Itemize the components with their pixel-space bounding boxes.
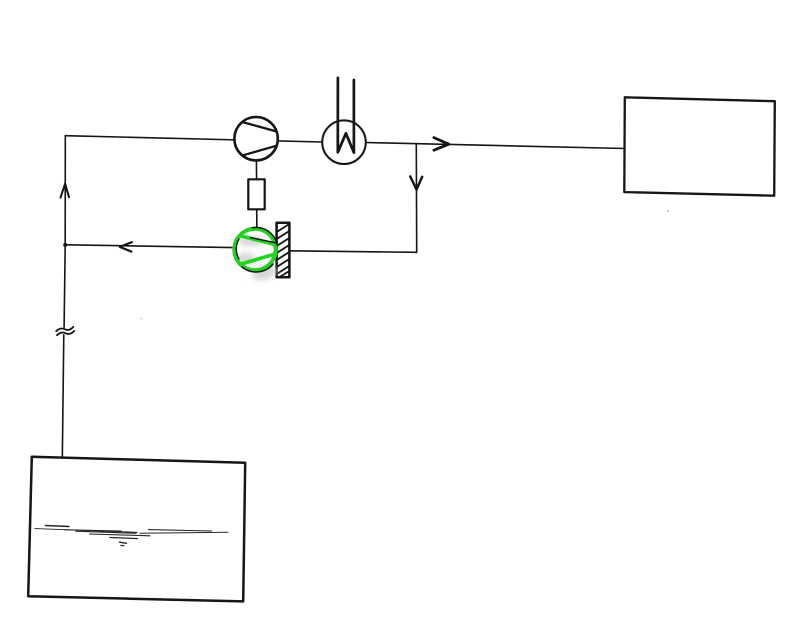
faint scan speck near box (667, 210, 669, 212)
tank (28, 457, 245, 602)
wire: branch riser down from header (415, 144, 417, 253)
wire: return line left segment (pump to left riser junction) (65, 245, 233, 248)
pump black ink arc top-right (252, 227, 277, 245)
liquid level lines (35, 526, 228, 546)
pump black ink arc bottom (242, 264, 273, 272)
wire: left riser up to header corner (64, 136, 66, 245)
pump black ink chord trace (251, 238, 276, 243)
wire: heater outlet to condenser box (366, 143, 625, 149)
wire: filter to pump (256, 209, 258, 229)
arrow left (on return line) (120, 242, 132, 251)
wire: compressor to filter (255, 160, 257, 180)
junction node (63, 243, 67, 247)
electric heater (W in circle) (322, 120, 366, 164)
break symbol on downcomer (56, 327, 73, 331)
arrow up (on left riser) (61, 184, 70, 198)
pump green chords (241, 236, 276, 245)
filter/drier rectangle (248, 179, 264, 209)
wire: left downcomer to tank (with break gap) (64, 245, 65, 327)
wire: top header from left corner to compressor/heater (65, 136, 322, 142)
pump black ink arc left inner (236, 239, 239, 259)
arrow down (on branch riser) (410, 176, 422, 189)
compressor circle (234, 117, 277, 160)
pump shadow wash (236, 236, 277, 280)
pump (white backing) (234, 227, 278, 271)
wire: return line right segment (branch to hatched wall) (290, 251, 417, 253)
condenser box (624, 97, 775, 195)
pump green highlight circle (234, 229, 275, 270)
hatched wall (277, 223, 290, 277)
arrow right (to condenser) (434, 138, 449, 151)
faint scan speck mid-left (141, 318, 143, 320)
